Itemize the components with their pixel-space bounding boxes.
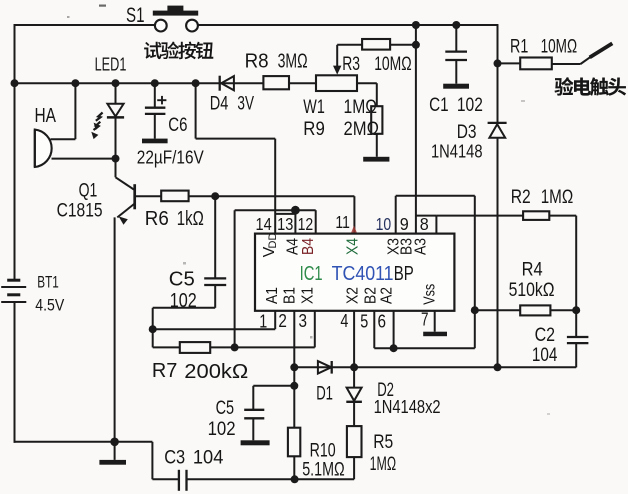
node top rail R3 [412, 21, 420, 29]
svg-text:4.5V: 4.5V [35, 297, 64, 315]
node bottom R10/R5/C3 [291, 475, 299, 483]
svg-text:D1: D1 [316, 383, 333, 404]
switch S1 (test pushbutton) [155, 20, 167, 32]
wire : bottom jog to C3 [115, 441, 153, 443]
svg-text:10MΩ: 10MΩ [374, 54, 412, 75]
node rail-left [11, 79, 19, 87]
resistor R10 5.1M [288, 428, 300, 457]
svg-text:10: 10 [376, 214, 392, 234]
node top rail C1 [452, 21, 460, 29]
capacitor C2 104 [575, 310, 577, 336]
svg-text:C1815: C1815 [57, 200, 103, 221]
potentiometer W1 1M / label R9 [316, 75, 357, 91]
resistor R1 10M [498, 62, 521, 64]
svg-text:10MΩ: 10MΩ [541, 37, 578, 58]
svg-text:102: 102 [208, 419, 236, 440]
svg-text:S1: S1 [126, 4, 145, 27]
svg-text:C1: C1 [429, 95, 449, 116]
svg-text:R5: R5 [373, 432, 393, 453]
svg-text:102: 102 [170, 290, 197, 312]
node R7 right / pins 13-12 drop [231, 343, 239, 351]
svg-text:6: 6 [378, 312, 387, 332]
ground (C1) [443, 84, 469, 89]
wire : main positive rail [15, 82, 264, 84]
svg-text:B4: B4 [300, 238, 317, 255]
wire : pin 4 lead [353, 311, 355, 367]
IC U1 TC4011BP body [255, 234, 454, 311]
svg-text:11: 11 [335, 212, 350, 232]
svg-text:BT1: BT1 [37, 274, 59, 292]
svg-text:IC1: IC1 [300, 262, 323, 285]
svg-text:A2: A2 [378, 287, 395, 304]
diode D2 [353, 367, 355, 387]
ground (C6) [142, 139, 168, 144]
wire : pins 2-3 net down / R10 branch [293, 311, 295, 428]
ground (R9) [363, 157, 389, 162]
svg-text:3: 3 [299, 311, 308, 331]
capacitor C5 102 (osc) [204, 277, 226, 279]
svg-text:R8: R8 [245, 50, 269, 72]
svg-text:7: 7 [421, 310, 429, 330]
svg-text:C5: C5 [216, 398, 235, 419]
node LED tap [112, 79, 120, 87]
svg-text:LED1: LED1 [95, 55, 127, 75]
node D1 anode / pin2-3 [290, 363, 298, 371]
wire : pins 13/12 top link down to R7 line [234, 210, 236, 347]
svg-text:1kΩ: 1kΩ [177, 208, 204, 230]
wire : pin 7 to ground [434, 311, 436, 332]
diode D4 3V [219, 76, 221, 91]
wire : pin 1 lead [153, 328, 276, 330]
svg-text:14: 14 [256, 214, 272, 234]
svg-text:8: 8 [420, 214, 429, 234]
svg-text:104: 104 [532, 345, 558, 366]
diode D1 [318, 361, 331, 373]
node D3 bottom [494, 363, 502, 371]
wire : R6 node down to C5 [214, 196, 216, 278]
capacitor C6 22uF/16V [154, 83, 156, 107]
node R4 left [471, 306, 479, 314]
svg-text:12: 12 [298, 214, 314, 234]
svg-text:R4: R4 [522, 259, 543, 280]
svg-text:1: 1 [259, 312, 267, 332]
ground (main, below Q1 emitter) [114, 442, 116, 460]
wire : mid net D1..C2 bottom [294, 366, 576, 368]
svg-text:R9: R9 [303, 119, 325, 140]
svg-text:B2: B2 [362, 287, 379, 304]
capacitor C1 102 [455, 25, 457, 51]
resistor R3 10M [337, 44, 362, 46]
svg-text:TC4011: TC4011 [332, 262, 394, 285]
capacitor C5 102 (second) [253, 385, 294, 387]
node pins 13/12 tie [291, 206, 300, 215]
svg-text:R6: R6 [145, 208, 169, 230]
wiper arrow from R3 [336, 45, 338, 67]
node pin1 / C5 / R7 [149, 325, 157, 333]
node pin6 tie [390, 344, 398, 352]
speckle marks (scan noise) [99, 5, 106, 7]
resistor R4 510k [475, 309, 520, 311]
wire : long drop R3 node to IC pin 9/8 divider [415, 45, 417, 234]
node D2 top [350, 363, 358, 371]
svg-text:5: 5 [360, 312, 368, 332]
wire : R3 to top rail [415, 25, 417, 45]
probe tip (verification contact) [581, 57, 591, 64]
svg-text:102: 102 [457, 95, 483, 116]
svg-text:C6: C6 [168, 115, 187, 136]
resistor R7 200k [152, 329, 154, 347]
diode D3 1N4148 [497, 63, 499, 123]
red mark at pin 11 [351, 226, 357, 233]
svg-text:X4: X4 [345, 238, 362, 255]
node emitter / battery minus [110, 438, 119, 447]
svg-text:1MΩ: 1MΩ [541, 187, 574, 208]
svg-text:D4: D4 [210, 94, 229, 115]
wire : left battery branch [14, 24, 16, 280]
resistor R2 1M [436, 215, 523, 217]
svg-text:BP: BP [394, 262, 414, 285]
wire : pin 5 / pin 6 tie to R4-left vertical [373, 311, 375, 348]
node R3 right [412, 41, 420, 49]
svg-text:200kΩ: 200kΩ [184, 361, 248, 383]
svg-text:22µF/16V: 22µF/16V [137, 147, 205, 168]
battery BT1 4.5V [7, 279, 20, 282]
ground (C5 second) [241, 440, 270, 445]
resistor R8 3M [263, 76, 289, 89]
svg-text:9: 9 [400, 214, 409, 234]
svg-text:A3: A3 [413, 238, 430, 255]
svg-text:Vss: Vss [421, 284, 438, 305]
svg-text:3MΩ: 3MΩ [278, 50, 308, 72]
node LED cathode / HA / Q1 collector [112, 155, 120, 163]
svg-text:510kΩ: 510kΩ [509, 280, 555, 301]
node D4 junction [192, 79, 200, 87]
wire : D4 node down to IC pin 14/13 [195, 83, 197, 138]
label 验电触头 [555, 77, 574, 95]
node C6 tap [151, 79, 159, 87]
node R6 / C5 branch [211, 192, 219, 200]
svg-text:1N4148: 1N4148 [431, 141, 483, 161]
wire : pins 10/9 tie box to R4 [395, 196, 397, 234]
svg-text:X2: X2 [345, 287, 362, 304]
svg-text:R1: R1 [510, 37, 528, 58]
wire : pin 8 lead to R2 [416, 215, 437, 217]
svg-text:104: 104 [193, 446, 224, 468]
svg-text:R10: R10 [310, 441, 336, 462]
label 试验按钮 (test button) [144, 42, 161, 59]
svg-text:2MΩ: 2MΩ [344, 119, 380, 140]
node C5b branch [290, 382, 298, 390]
svg-text:R2: R2 [511, 187, 531, 208]
svg-text:C3: C3 [164, 446, 185, 468]
node HA tap [71, 79, 79, 87]
LED LED1 [115, 83, 117, 104]
resistor R9 2M body [357, 82, 377, 84]
wire : top supply rail through S1 [15, 24, 155, 26]
svg-text:R7: R7 [152, 360, 178, 382]
svg-text:A1: A1 [264, 287, 281, 304]
svg-text:DD: DD [267, 233, 279, 249]
svg-text:1N4148x2: 1N4148x2 [374, 397, 441, 417]
svg-text:C2: C2 [535, 325, 556, 346]
wire : top rail right corner down to R1/D3 [497, 24, 499, 63]
svg-text:Q1: Q1 [79, 180, 98, 201]
wire : pin 11 lead from R6 line [353, 196, 355, 233]
node R1 / D3 [494, 59, 502, 67]
svg-text:3V: 3V [237, 94, 254, 115]
capacitor C3 104 [178, 470, 180, 491]
transistor Q1 C1815 [115, 159, 117, 178]
svg-text:HA: HA [35, 105, 57, 127]
resistor R5 1M [347, 426, 362, 457]
svg-text:X1: X1 [300, 287, 317, 304]
LED light arrows [96, 113, 103, 121]
svg-text:C5: C5 [169, 269, 195, 291]
svg-text:13: 13 [277, 214, 293, 234]
svg-text:4: 4 [340, 311, 348, 331]
node R4 right / C2 [572, 306, 580, 314]
svg-text:W1: W1 [303, 97, 325, 118]
svg-text:B1: B1 [282, 287, 299, 304]
svg-text:R3: R3 [342, 54, 360, 75]
svg-text:D3: D3 [457, 122, 477, 143]
svg-text:2: 2 [278, 311, 287, 331]
resistor R6 1k [161, 191, 188, 202]
svg-text:1MΩ: 1MΩ [370, 454, 397, 475]
ground (pin 7 Vss) [423, 332, 447, 337]
svg-text:5.1MΩ: 5.1MΩ [302, 460, 345, 481]
buzzer HA [74, 83, 76, 139]
